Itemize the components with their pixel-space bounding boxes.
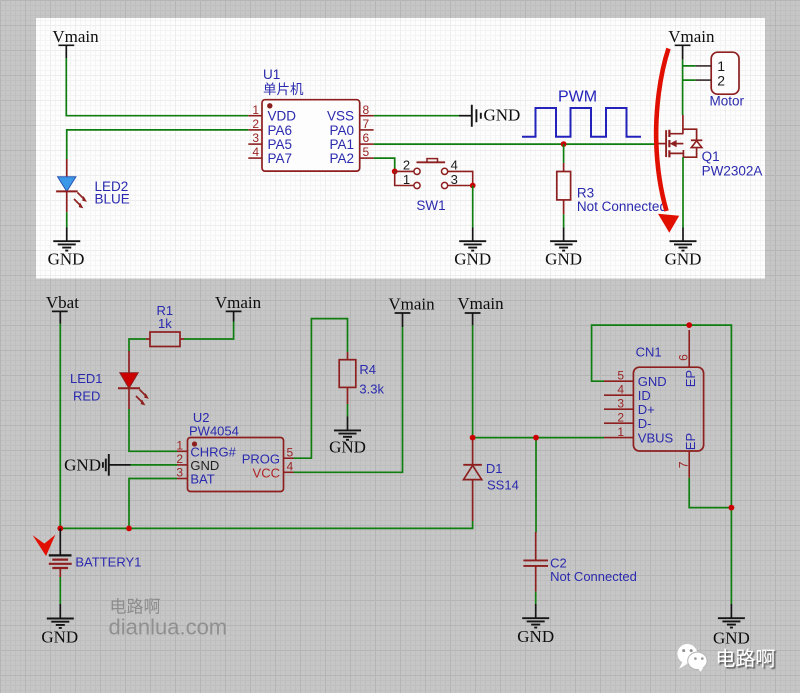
wire node to R3	[563, 144, 565, 163]
ground (below battery)	[41, 604, 78, 647]
svg-text:电路啊: 电路啊	[715, 648, 775, 671]
wire CN1 GND loop (pin5 - pin6 - right rail)	[592, 325, 732, 508]
svg-text:SW1: SW1	[416, 198, 445, 213]
svg-text:GND: GND	[484, 106, 521, 125]
svg-text:Motor: Motor	[710, 94, 745, 109]
capacitor C2	[523, 532, 548, 592]
svg-text:dianlua.com: dianlua.com	[109, 615, 228, 640]
wire Vmain to Motor pin1 and pin2 / drain	[683, 60, 696, 115]
svg-text:ID: ID	[638, 388, 651, 403]
resistor R3	[557, 163, 571, 214]
svg-text:6: 6	[677, 354, 691, 361]
wire R3 to ground	[563, 214, 565, 227]
U2 pin 4 VCC	[253, 460, 294, 481]
junction BAT/bottom rail	[126, 526, 132, 532]
power flag Vmain (top left)	[52, 27, 99, 58]
svg-text:Vbat: Vbat	[46, 293, 79, 312]
svg-text:PW2302A: PW2302A	[702, 164, 763, 179]
ground (below C2)	[517, 604, 554, 646]
wire D1 node to CN1 VBUS	[473, 437, 604, 439]
wire C2 to ground	[535, 592, 537, 604]
wire Vmain trunk to U1 pin1 (VDD)	[66, 58, 248, 116]
CN1 pin 5 GND	[604, 368, 667, 389]
CN1 pin 6 EP (top)	[677, 330, 698, 387]
junction at PWM/R3 node	[561, 141, 567, 147]
svg-text:5: 5	[363, 145, 370, 159]
ground (below R4)	[329, 417, 366, 457]
LED1 (red LED)	[118, 351, 149, 409]
svg-text:R4: R4	[359, 362, 376, 377]
svg-text:Vmain: Vmain	[215, 293, 262, 312]
Motor pin 1	[696, 58, 726, 74]
svg-text:2: 2	[403, 158, 410, 173]
ground (below Q1)	[665, 228, 702, 269]
Motor pin 2	[696, 72, 726, 88]
svg-text:2: 2	[176, 452, 183, 466]
junction D1 node	[470, 435, 476, 441]
ground (below CN1)	[713, 604, 750, 648]
wire VSS to ground flag	[374, 115, 459, 117]
U1 pin 7 PA0	[329, 117, 373, 138]
svg-text:Not Connected: Not Connected	[550, 569, 637, 584]
wire U2 VCC to Vmain	[294, 327, 403, 472]
junction C2 node	[533, 435, 539, 441]
svg-text:1: 1	[252, 103, 259, 117]
svg-text:D1: D1	[486, 461, 503, 476]
svg-text:4: 4	[252, 145, 259, 159]
red annotation arrow at battery	[33, 535, 56, 556]
svg-text:BAT: BAT	[190, 472, 214, 487]
wire right rail to ground	[730, 508, 732, 604]
svg-text:PA5: PA5	[268, 137, 293, 152]
svg-text:Vmain: Vmain	[52, 27, 99, 46]
wire U2 PROG to R4	[294, 319, 348, 459]
CN1 pin 1 VBUS	[604, 425, 674, 446]
svg-text:PWM: PWM	[558, 89, 597, 106]
switch SW1	[395, 159, 473, 189]
svg-text:VBUS: VBUS	[638, 431, 674, 446]
resistor R1	[146, 332, 184, 347]
svg-text:GND: GND	[48, 250, 85, 269]
svg-text:PW4054: PW4054	[189, 424, 239, 439]
svg-text:7: 7	[363, 117, 370, 131]
wire Vmain to R1 right	[184, 322, 234, 340]
power flag Vmain (above VCC wire)	[388, 295, 435, 328]
PWM waveform annotation	[522, 108, 641, 137]
wire R4 to ground	[347, 404, 349, 417]
svg-text:4: 4	[617, 382, 624, 396]
svg-text:GND: GND	[454, 250, 491, 269]
svg-text:U1: U1	[263, 67, 280, 82]
U1 pin 1 VDD	[248, 103, 296, 124]
wire battery to ground	[59, 577, 61, 604]
svg-text:PA7: PA7	[268, 151, 293, 166]
white schematic sheet	[36, 18, 765, 279]
svg-text:7: 7	[677, 461, 691, 468]
wire PA1 (pin6) to Q1 gate	[374, 143, 658, 145]
U1 pin 8 VSS	[327, 103, 374, 124]
U1 pin 2 PA6	[248, 117, 292, 138]
svg-text:VCC: VCC	[253, 466, 280, 481]
svg-text:1: 1	[403, 172, 410, 187]
svg-text:GND: GND	[638, 374, 667, 389]
svg-text:CN1: CN1	[636, 345, 662, 360]
wire Vmain down to D1 node	[472, 325, 474, 437]
U1 pin 6 PA1	[329, 131, 373, 152]
svg-text:D-: D-	[638, 416, 652, 431]
power flag Vmain (top right)	[668, 27, 715, 60]
svg-text:EP: EP	[683, 433, 698, 450]
ground (below SW1)	[454, 228, 491, 269]
svg-text:VDD: VDD	[268, 109, 297, 124]
wire U2 BAT to bottom rail	[129, 479, 177, 529]
wire Vbat down to battery node	[59, 324, 61, 529]
U2 pin 1 CHRG#	[176, 439, 236, 460]
ground (below R3)	[545, 228, 582, 269]
diode D1	[463, 438, 482, 521]
svg-text:Vmain: Vmain	[388, 295, 435, 314]
svg-text:GND: GND	[329, 438, 366, 457]
svg-text:VSS: VSS	[327, 109, 354, 124]
svg-text:EP: EP	[683, 370, 698, 387]
svg-text:GND: GND	[665, 250, 702, 269]
wire PA2 (pin5) to SW1	[374, 158, 395, 171]
U2 pin 3 BAT	[176, 466, 214, 487]
svg-text:Vmain: Vmain	[457, 294, 504, 313]
wire LED1 to U2 pin1	[129, 409, 177, 451]
CN1 pin 4 ID	[604, 382, 651, 403]
svg-text:1k: 1k	[158, 316, 172, 331]
svg-text:1: 1	[617, 425, 624, 439]
U2 pin 2 GND	[131, 452, 220, 473]
svg-text:3: 3	[617, 396, 624, 410]
svg-text:D+: D+	[638, 402, 655, 417]
svg-text:Vmain: Vmain	[668, 27, 715, 46]
svg-text:2: 2	[252, 117, 259, 131]
WeChat logo	[677, 644, 707, 672]
svg-text:2: 2	[717, 72, 725, 88]
wire SW1 to ground	[472, 186, 474, 228]
svg-text:LED1: LED1	[70, 371, 103, 386]
transistor Q1 (NMOS with body diode)	[658, 115, 702, 157]
svg-text:GND: GND	[713, 629, 750, 648]
svg-text:3.3k: 3.3k	[359, 382, 384, 397]
svg-text:PA1: PA1	[329, 137, 354, 152]
wire LED2 to ground	[66, 212, 68, 227]
svg-text:8: 8	[363, 103, 370, 117]
svg-text:GND: GND	[545, 250, 582, 269]
svg-text:6: 6	[363, 131, 370, 145]
junction pin6 node	[686, 322, 692, 328]
svg-text:Not Connected: Not Connected	[577, 199, 667, 214]
svg-text:3: 3	[451, 172, 458, 187]
svg-text:GND: GND	[64, 456, 101, 475]
power flag Vbat	[46, 293, 79, 324]
svg-text:BATTERY1: BATTERY1	[75, 555, 141, 570]
CN1 pin 2 D-	[604, 410, 652, 431]
wire pin7 to right rail	[689, 478, 731, 508]
svg-text:3: 3	[252, 131, 259, 145]
connector Motor body	[711, 52, 739, 94]
resistor R4	[339, 352, 356, 404]
wire C2 node down	[535, 438, 537, 533]
junction at SW1 pins 1-2	[392, 169, 398, 175]
svg-text:PA6: PA6	[268, 123, 293, 138]
IC U1 body	[262, 100, 360, 171]
ground (below LED2)	[48, 228, 85, 269]
power flag Vmain (above R1)	[215, 293, 262, 322]
U1 pin 5 PA2	[329, 145, 373, 166]
power flag Vmain (above D1)	[457, 294, 504, 325]
svg-text:GND: GND	[41, 628, 78, 647]
connector CN1 body	[633, 367, 703, 451]
svg-text:4: 4	[287, 460, 294, 474]
svg-text:BLUE: BLUE	[95, 192, 130, 207]
U1 pin 4 PA7	[248, 145, 292, 166]
wire R1 left to LED1	[129, 339, 146, 352]
U1 pin 3 PA5	[248, 131, 292, 152]
ground flag (at U2 pin2)	[64, 454, 130, 476]
wire U1 pin2 (PA6) to LED2	[67, 130, 249, 160]
ground flag (at VSS)	[459, 105, 520, 127]
CN1 pin 3 D+	[604, 396, 655, 417]
battery BATTERY1	[49, 528, 72, 577]
svg-text:单片机: 单片机	[263, 82, 304, 97]
svg-text:5: 5	[287, 445, 294, 459]
svg-text:1: 1	[176, 439, 183, 453]
U2 pin 5 PROG	[242, 445, 294, 466]
IC U2 body	[188, 438, 284, 492]
junction at SW1 pins 3-4	[470, 183, 476, 189]
junction right rail	[729, 505, 735, 511]
svg-text:RED: RED	[73, 389, 100, 404]
svg-text:SS14: SS14	[487, 478, 519, 493]
junction battery node	[57, 526, 63, 532]
wire Q1 source to ground	[682, 157, 684, 227]
svg-text:PA2: PA2	[329, 151, 354, 166]
svg-text:4: 4	[451, 158, 458, 173]
svg-text:GND: GND	[517, 627, 554, 646]
svg-text:PROG: PROG	[242, 451, 280, 466]
svg-text:2: 2	[617, 410, 624, 424]
svg-text:PA0: PA0	[329, 123, 354, 138]
svg-text:Q1: Q1	[702, 149, 720, 164]
CN1 pin 7 EP (bottom)	[677, 433, 698, 478]
red current-path arrow annotation	[656, 49, 679, 233]
svg-text:3: 3	[176, 466, 183, 480]
wire D1 to bottom rail	[60, 521, 472, 528]
LED2 (blue LED)	[56, 159, 87, 212]
svg-text:5: 5	[617, 368, 624, 382]
